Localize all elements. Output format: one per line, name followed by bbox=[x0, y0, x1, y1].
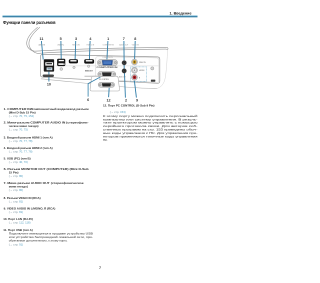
svg-text:7: 7 bbox=[123, 37, 125, 41]
svg-text:(→ стр. 91): (→ стр. 91) bbox=[9, 242, 23, 246]
svg-text:ПК.: ПК. bbox=[103, 138, 108, 142]
item 10 text bbox=[3, 217, 33, 224]
svg-text:(→ стр. 70, 77, 78): (→ стр. 70, 77, 78) bbox=[9, 139, 33, 143]
svg-text:10: 10 bbox=[47, 82, 51, 86]
svg-text:(→ стр. 40, 70): (→ стр. 40, 70) bbox=[9, 160, 28, 164]
white RCA L/MONO bbox=[132, 67, 138, 73]
dashed selection box around L/R bbox=[131, 67, 147, 82]
svg-text:COMPUTER IN: COMPUTER IN bbox=[103, 45, 115, 47]
item 5 text bbox=[4, 157, 31, 164]
callout line 7 bbox=[123, 41, 125, 71]
callout line 4 bbox=[88, 41, 91, 60]
PC CONTROL D-sub 12 bbox=[98, 82, 114, 87]
terminal panel recess bbox=[40, 54, 159, 83]
svg-text:(→ стр. 80): (→ стр. 80) bbox=[9, 188, 23, 192]
svg-text:USB (PC): USB (PC) bbox=[57, 45, 64, 47]
screw/label under HDMI2 bbox=[87, 65, 89, 67]
svg-text:COMPUTER IN: COMPUTER IN bbox=[97, 67, 119, 69]
svg-text:8: 8 bbox=[134, 37, 136, 41]
svg-text:R: R bbox=[139, 77, 140, 79]
svg-text:(→ стр. 70, 77, 78): (→ стр. 70, 77, 78) bbox=[9, 150, 33, 154]
item 9 text bbox=[4, 207, 56, 214]
HDMI 2 connector bbox=[84, 59, 94, 63]
VIDEO IN yellow RCA 8 bbox=[132, 59, 138, 65]
item 2 text bbox=[4, 121, 89, 132]
callout line 8 bbox=[134, 41, 137, 60]
svg-text:(→ стр. 70, 75, 154): (→ стр. 70, 75, 154) bbox=[9, 114, 34, 118]
svg-text:ектором применяются типичные к: ектором применяются типичные коды управл… bbox=[103, 135, 198, 139]
svg-text:HDMI 2 IN: HDMI 2 IN bbox=[87, 45, 95, 47]
item 11 text bbox=[3, 228, 93, 247]
item 7 text bbox=[4, 181, 84, 192]
cabinet top double lines bbox=[35, 47, 168, 53]
svg-text:(→ стр. 112, 118): (→ стр. 112, 118) bbox=[9, 221, 31, 225]
svg-text:11: 11 bbox=[40, 37, 44, 41]
SERVICE port bbox=[151, 80, 155, 82]
mini jack AUDIO upper 7 bbox=[122, 61, 127, 66]
PC CONTROL trapezoid recess bbox=[90, 76, 119, 91]
callout line 6 bbox=[88, 76, 102, 96]
svg-text:1. Введение: 1. Введение bbox=[170, 12, 192, 16]
svg-text:12. Порт PC CONTROL (D-Sub 9 P: 12. Порт PC CONTROL (D-Sub 9 Pin) bbox=[103, 104, 154, 108]
HDMI 1 connector bbox=[69, 59, 78, 63]
callout line 9 bbox=[134, 81, 136, 98]
svg-text:4: 4 bbox=[89, 37, 92, 41]
cabinet outline left double curve bbox=[27, 27, 40, 53]
svg-text:MON.OUT: MON.OUT bbox=[85, 70, 93, 72]
panel separator hairline bbox=[56, 65, 159, 67]
svg-text:(→ стр. 80): (→ стр. 80) bbox=[9, 174, 23, 178]
item 8 text bbox=[4, 196, 41, 203]
screw/label under HDMI1 bbox=[73, 66, 75, 68]
callout line 11 bbox=[41, 41, 43, 60]
mini jack AUDIO lower 2 bbox=[122, 69, 127, 74]
svg-text:9: 9 bbox=[136, 99, 138, 103]
callout line 1 bbox=[107, 41, 108, 60]
svg-text:5: 5 bbox=[60, 37, 62, 41]
item 1 text bbox=[4, 107, 89, 118]
callout line 2 bbox=[124, 71, 125, 98]
connector name micro-labels row bbox=[38, 44, 140, 47]
svg-text:VIDEO IN: VIDEO IN bbox=[139, 62, 146, 64]
item 12 text bbox=[103, 104, 199, 142]
item 4 text bbox=[4, 146, 53, 153]
cabinet bottom line bbox=[41, 79, 157, 89]
svg-text:VIDEO IN: VIDEO IN bbox=[132, 45, 140, 47]
callout line 12 bbox=[108, 88, 111, 97]
svg-text:2: 2 bbox=[125, 99, 127, 103]
svg-text:6: 6 bbox=[87, 98, 89, 102]
svg-text:7: 7 bbox=[99, 266, 101, 270]
svg-text:COMPUTER IN: COMPUTER IN bbox=[102, 57, 113, 59]
svg-text:3: 3 bbox=[75, 37, 77, 41]
LAN/USB double port block bbox=[44, 59, 54, 71]
cabinet right edge faint bbox=[157, 50, 167, 89]
screw below USB-B bbox=[60, 68, 63, 71]
MONITOR OUT connector 6 bbox=[98, 72, 116, 77]
svg-text:12: 12 bbox=[106, 99, 110, 103]
callout line 10 bbox=[48, 72, 50, 82]
svg-text:Функции панели разъемов: Функции панели разъемов bbox=[3, 20, 56, 25]
svg-text:(→ стр. 70, 75): (→ стр. 70, 75) bbox=[9, 128, 28, 132]
callout line 3 bbox=[74, 41, 77, 60]
item 3 text bbox=[4, 136, 53, 143]
VGA connector COMPUTER IN 1 bbox=[97, 60, 117, 66]
callout line 5 bbox=[60, 41, 62, 59]
svg-text:(→ стр. 81): (→ стр. 81) bbox=[9, 210, 23, 214]
svg-text:L/MONO: L/MONO bbox=[139, 70, 145, 72]
svg-text:HDMI 1 IN: HDMI 1 IN bbox=[72, 45, 80, 47]
header rule bbox=[3, 15, 198, 17]
svg-text:1: 1 bbox=[107, 37, 109, 41]
screw right area bbox=[151, 67, 154, 70]
red RCA R 9 bbox=[132, 74, 138, 80]
svg-text:(→ стр. 81): (→ стр. 81) bbox=[9, 200, 23, 204]
item 6 text bbox=[4, 167, 89, 178]
svg-text:PC CONTROL: PC CONTROL bbox=[99, 79, 109, 81]
gray bar above trapezoid bbox=[85, 76, 107, 77]
vent bar below LAN/USB bbox=[43, 75, 54, 78]
inner sub-panel rect bbox=[96, 57, 159, 83]
USB-B connector 5 bbox=[57, 59, 65, 66]
